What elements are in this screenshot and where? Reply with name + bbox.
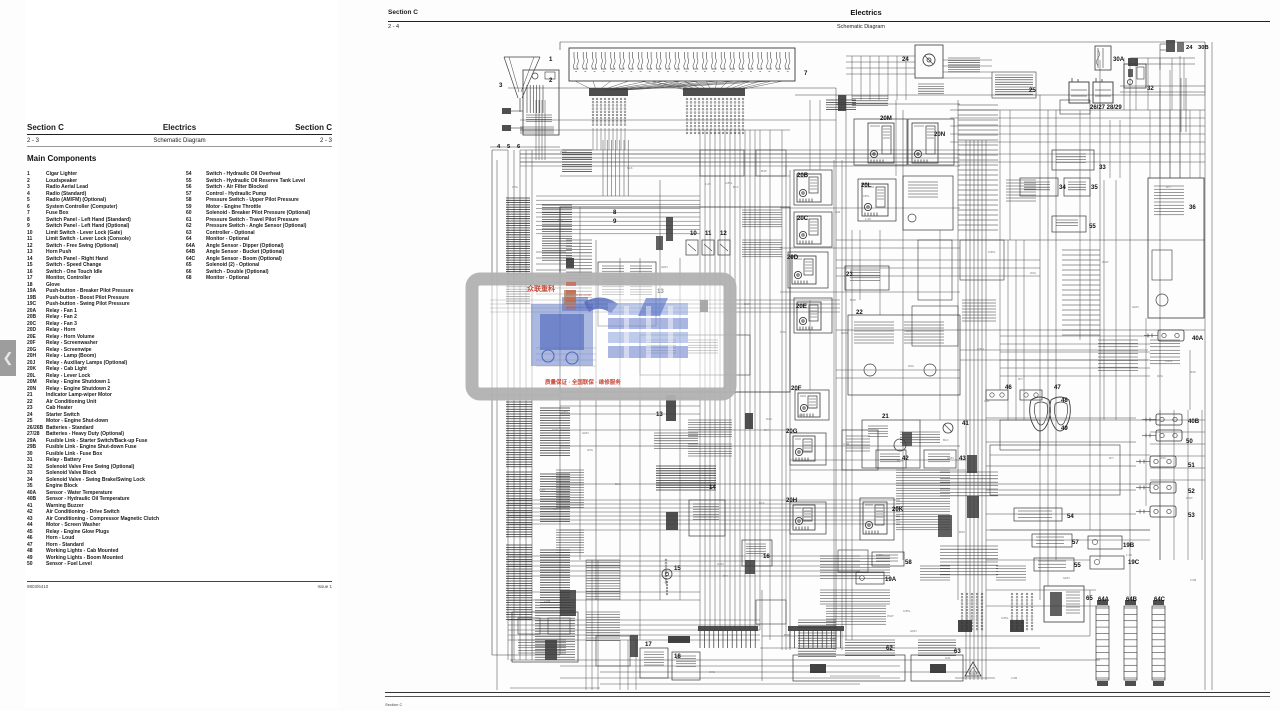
ignition comb [826, 100, 856, 110]
svg-text:WHT: WHT [1102, 260, 1109, 264]
wire outer left frame [492, 150, 560, 690]
svg-text:0.85L: 0.85L [862, 194, 870, 198]
svg-text:20M: 20M [880, 115, 892, 122]
speed change switch 15 [662, 569, 672, 595]
svg-text:30A: 30A [1113, 56, 1125, 63]
svg-text:25: 25 [1029, 87, 1036, 94]
comb bottom right of centre [826, 606, 886, 624]
svg-text:19C: 19C [1128, 559, 1140, 566]
watermark grey frame [472, 279, 730, 394]
bottom comb grid C [918, 640, 956, 656]
svg-text:G/R: G/R [945, 656, 951, 660]
svg-text:W/G: W/G [512, 185, 519, 189]
junction blob centre [745, 413, 753, 429]
comb top mid extra [852, 84, 944, 106]
switch panel 14 block [656, 466, 716, 490]
junction blob bl4 [745, 560, 755, 574]
svg-text:47: 47 [1054, 384, 1061, 391]
watermark red column marks [566, 282, 576, 310]
svg-text:18: 18 [674, 653, 681, 660]
wiper motor 21 box [862, 420, 920, 468]
svg-text:BLK: BLK [759, 501, 765, 505]
switch 53 capsule [1136, 506, 1176, 517]
wire vertical singles [560, 42, 1212, 690]
svg-text:R/Y: R/Y [1166, 185, 1171, 189]
svg-text:40A: 40A [1192, 335, 1204, 342]
left connector ladder mid [506, 402, 570, 467]
junction blob bead A [958, 620, 972, 632]
push-button 19A [856, 572, 884, 584]
controller 18 connector [672, 652, 700, 680]
push-button 19B [1088, 536, 1122, 549]
relay 20F [795, 390, 829, 420]
svg-text:B/W: B/W [1190, 370, 1196, 374]
wire mesh top-right grid [950, 110, 1205, 178]
labels 10 11 12 [690, 230, 727, 237]
junction blob [566, 258, 574, 268]
travel sensor warning triangle [955, 662, 995, 678]
right page header [388, 6, 1270, 32]
harness connector B [683, 88, 745, 134]
svg-text:BLK: BLK [733, 185, 739, 189]
relay 20M frame [854, 119, 907, 165]
svg-text:1: 1 [549, 56, 553, 63]
wire left-bottom verticals [586, 560, 636, 690]
svg-text:G/R: G/R [798, 413, 804, 417]
svg-text:R/Y: R/Y [558, 219, 563, 223]
svg-text:35: 35 [1091, 184, 1098, 191]
wire right-low mesh [1150, 410, 1205, 560]
working light 49 [1050, 397, 1071, 431]
svg-text:65: 65 [1086, 595, 1093, 602]
svg-text:B/W: B/W [959, 530, 965, 534]
watermark red text top [527, 284, 592, 297]
junction blob rb1 [938, 515, 952, 537]
right page footer [385, 692, 1270, 697]
solenoid 65 block [1044, 586, 1084, 622]
svg-text:GRN: GRN [910, 629, 917, 633]
loudspeaker 2 lower [502, 125, 523, 131]
relay 20K [860, 498, 894, 540]
svg-text:33: 33 [1099, 164, 1106, 171]
relay 20J box [842, 430, 878, 470]
svg-text:GRN: GRN [1132, 305, 1139, 309]
svg-text:WHT: WHT [1186, 496, 1193, 500]
starter switch 24 [915, 45, 980, 78]
wire vertical singles 2 [580, 56, 1190, 650]
left connector ladder upper [506, 198, 572, 304]
wire bundle top-left drop [536, 100, 545, 160]
svg-text:众联重科: 众联重科 [527, 284, 555, 293]
tick rows right trunk [940, 472, 998, 575]
wire h-bundle into left panel [536, 196, 700, 234]
horn push 13 connector [654, 395, 698, 449]
right harness comb mid [1062, 250, 1100, 335]
svg-text:12: 12 [720, 230, 727, 237]
battery relay 32 [1124, 64, 1146, 88]
wire battery feeds [1120, 58, 1205, 110]
wire h-bundle mid [490, 300, 840, 312]
sensor 40B capsule [1142, 414, 1182, 425]
svg-text:G/R: G/R [553, 507, 559, 511]
controller pin comb left [566, 240, 592, 307]
svg-text:BLK: BLK [615, 482, 621, 486]
svg-text:40B: 40B [1188, 418, 1200, 425]
junction blob bead B [1010, 620, 1024, 632]
wire mesh to motor 25 [943, 60, 992, 78]
capsule feed wires [986, 418, 1136, 514]
warning buzzer 41 [943, 423, 953, 433]
svg-text:GRN: GRN [661, 265, 668, 269]
svg-text:WHT: WHT [887, 614, 894, 618]
frame box right mid [990, 445, 1120, 495]
wire mesh right block [1000, 240, 1150, 420]
svg-text:W/G: W/G [908, 364, 915, 368]
svg-text:GRN: GRN [717, 562, 724, 566]
watermark red text bottom [545, 378, 621, 386]
svg-text:0.85L: 0.85L [876, 553, 884, 557]
comb upper mid [688, 420, 732, 456]
svg-text:GRN: GRN [947, 456, 954, 460]
bottom frame line [762, 590, 1090, 681]
svg-text:B/W: B/W [850, 298, 856, 302]
relay 20G [790, 433, 826, 465]
junction blob right trunk A [967, 455, 977, 473]
wire long singles [490, 240, 1205, 672]
connector comb bottom centre B [788, 626, 844, 648]
junction blob bl3 [630, 635, 638, 657]
wire h-bundle under fusebox [520, 150, 960, 166]
svg-text:R/Y: R/Y [1109, 456, 1114, 460]
hydraulic switch 55 [1052, 216, 1086, 232]
wire h-bundle lower-mid [508, 500, 900, 524]
comb bottom right extras [920, 566, 1026, 580]
connector bar 17 [668, 636, 690, 643]
harness connector A [589, 88, 628, 126]
wire bottom horizontals [510, 666, 900, 688]
svg-text:20B: 20B [797, 172, 809, 179]
svg-text:3: 3 [499, 82, 503, 89]
svg-text:13: 13 [656, 411, 663, 418]
wire top trunk [560, 42, 1205, 95]
svg-text:W/G: W/G [1160, 456, 1167, 460]
svg-text:30B: 30B [1198, 45, 1209, 51]
svg-text:G/R: G/R [835, 210, 841, 214]
wire long singles 2 [508, 120, 1150, 648]
wire mesh top-right ignition [846, 56, 915, 100]
sidebar nav button [0, 340, 16, 376]
panel switches row [640, 335, 750, 375]
monitor box 63 [911, 655, 963, 681]
svg-text:2.0B: 2.0B [1190, 578, 1196, 582]
svg-text:19B: 19B [1123, 542, 1135, 549]
svg-text:23: 23 [846, 271, 853, 278]
svg-text:WHT: WHT [560, 150, 567, 154]
relay 20D [788, 252, 828, 288]
engine shutdown motor 25 [992, 72, 1036, 98]
centre ladder box [666, 500, 725, 536]
left page [25, 0, 338, 708]
svg-text:19A: 19A [885, 576, 897, 583]
svg-text:2.0B: 2.0B [843, 442, 849, 446]
left bottom box 17 [512, 612, 578, 662]
switch panel 8/9 frame [560, 207, 790, 392]
svg-text:0.85L: 0.85L [561, 410, 569, 414]
pressure switch 54 [1014, 508, 1062, 521]
svg-text:20L: 20L [861, 182, 872, 189]
svg-text:54: 54 [1067, 513, 1074, 520]
wire relay column crossings [780, 160, 1150, 650]
fuel sensor 50 capsule [1142, 430, 1182, 441]
switch 51 capsule [1136, 456, 1176, 467]
bottom-mid comb rows [820, 556, 890, 604]
monitor box 62 [793, 655, 905, 681]
pressure switch 55 [1034, 558, 1074, 571]
svg-text:55: 55 [1074, 562, 1081, 569]
svg-text:BLK: BLK [943, 438, 949, 442]
comb bottom-left dense [535, 600, 575, 660]
svg-text:R/Y: R/Y [723, 574, 728, 578]
connector comb under radio [520, 127, 554, 133]
svg-text:41: 41 [962, 420, 969, 427]
angle sensor 64B [1124, 600, 1137, 686]
wire v-bundle left harness [508, 150, 532, 660]
svg-text:W/G: W/G [1030, 271, 1037, 275]
fusible links 24/30B top right [1160, 40, 1184, 52]
controller block 6 [598, 262, 656, 326]
svg-text:7: 7 [804, 70, 808, 77]
fusible link 30A [1095, 46, 1111, 70]
loudspeaker 2 upper [502, 108, 523, 114]
svg-text:20G: 20G [786, 428, 798, 435]
svg-text:20K: 20K [892, 506, 904, 513]
svg-text:15: 15 [674, 565, 681, 572]
junction blob top [838, 95, 846, 111]
relay 20M [868, 123, 894, 163]
wiper unit 21 box [903, 176, 953, 230]
svg-text:0.85L: 0.85L [903, 609, 911, 613]
svg-text:22: 22 [856, 309, 863, 316]
svg-text:17: 17 [645, 641, 652, 648]
junction blob mid [700, 300, 708, 312]
comb upper-left harness [562, 150, 592, 172]
wire h-bundle bottom [508, 620, 760, 640]
air con unit 22 box [848, 315, 960, 395]
svg-text:20C: 20C [797, 215, 809, 222]
small boxes scatter [596, 100, 1090, 666]
wire v-bundle centre trunk [700, 130, 760, 630]
battery 28/29 [1093, 78, 1113, 103]
svg-text:36: 36 [1189, 204, 1196, 211]
svg-text:W/G: W/G [709, 670, 716, 674]
solenoid valve 34 [1020, 178, 1058, 196]
svg-text:14: 14 [709, 484, 716, 491]
wire mesh upper-centre verticals [603, 140, 628, 196]
angle sensor 64A [1096, 600, 1109, 686]
relay 20N [908, 119, 954, 165]
svg-text:GRN: GRN [552, 428, 559, 432]
relay 20L [858, 179, 896, 221]
compressor clutch 43 [924, 450, 956, 468]
svg-text:64A: 64A [1098, 597, 1110, 603]
svg-text:W/G: W/G [766, 417, 773, 421]
svg-text:43: 43 [959, 455, 966, 462]
horn 46 [986, 390, 1008, 400]
solenoid valve 33 [1052, 150, 1094, 170]
svg-text:42: 42 [902, 455, 909, 462]
svg-text:11: 11 [705, 230, 712, 237]
push-button 19C [1090, 556, 1124, 569]
svg-text:64B: 64B [1126, 597, 1138, 603]
junction blob bl1 [560, 590, 576, 616]
pressure switch 57 [1032, 534, 1072, 547]
wire horizontals upper [490, 88, 1205, 147]
svg-text:16: 16 [763, 553, 770, 560]
switch 58 [872, 552, 904, 566]
one touch idle 16 [742, 540, 772, 566]
junction blob right [1128, 58, 1138, 66]
switch 52 capsule [1136, 482, 1176, 493]
svg-text:B/W: B/W [897, 459, 903, 463]
bottom-left comb stack [586, 560, 620, 641]
left connector ladder bottom [506, 545, 570, 619]
svg-text:1.25: 1.25 [865, 217, 871, 221]
svg-text:R/Y: R/Y [764, 428, 769, 432]
comb right-bottom A [896, 432, 950, 530]
svg-text:34: 34 [1059, 184, 1066, 191]
svg-text:53: 53 [1188, 512, 1195, 519]
svg-text:8: 8 [613, 209, 617, 216]
watermark tan mark [564, 290, 576, 305]
engine block 36 [1148, 178, 1204, 318]
svg-text:21: 21 [882, 413, 889, 420]
svg-text:0.85L: 0.85L [725, 181, 733, 185]
svg-text:B/W: B/W [784, 633, 790, 637]
bead column cluster bottom [961, 593, 1033, 630]
junction blob panel B [656, 236, 663, 250]
svg-text:26/27 28/29: 26/27 28/29 [1090, 105, 1122, 111]
svg-text:64C: 64C [1154, 597, 1166, 603]
svg-text:0.85L: 0.85L [977, 347, 985, 351]
fuse box fan-out wires [575, 81, 783, 90]
svg-text:0.85L: 0.85L [1165, 359, 1173, 363]
left connector ladder lower [506, 472, 570, 537]
svg-text:52: 52 [1188, 488, 1195, 495]
junction blob panel A [666, 217, 673, 241]
free swing switch 12 [718, 240, 730, 255]
comb right of panel [742, 210, 782, 257]
wire h-bundle lower [508, 556, 860, 576]
comb far right lower [1098, 340, 1180, 371]
aircon drive switch 42 [876, 450, 906, 468]
relay 20E [794, 298, 832, 333]
relay 20C [794, 212, 832, 247]
svg-text:1.25: 1.25 [1126, 553, 1132, 557]
wire under-fusebox long [520, 154, 1205, 162]
monitor 17 connector [640, 648, 668, 678]
limit switch 11 [702, 240, 714, 255]
svg-text:0.85L: 0.85L [988, 250, 996, 254]
svg-text:BLK: BLK [627, 166, 633, 170]
svg-text:20N: 20N [934, 131, 945, 138]
sensor 40A capsule [1144, 330, 1184, 341]
radio 4/5 [523, 70, 559, 135]
svg-text:G/R: G/R [984, 399, 990, 403]
battery 26/27 [1069, 78, 1089, 103]
svg-text:58: 58 [905, 559, 912, 566]
svg-text:49: 49 [1061, 425, 1068, 432]
svg-text:0.85L: 0.85L [1001, 616, 1009, 620]
labels 4 5 6 [497, 144, 521, 150]
svg-text:GRN: GRN [1063, 576, 1070, 580]
svg-text:B/W: B/W [744, 302, 750, 306]
fuse box 7 [569, 48, 795, 81]
svg-text:1.25: 1.25 [539, 488, 545, 492]
svg-text:10: 10 [690, 230, 697, 237]
bottom comb grid A [798, 620, 836, 656]
horn 47 [1020, 390, 1042, 400]
junction blob right trunk B [967, 496, 979, 518]
svg-text:B/W: B/W [761, 169, 767, 173]
cab heater 23 [845, 266, 889, 290]
watermark blue machine graphic [531, 297, 688, 366]
junction blob bl2 [545, 640, 557, 660]
wire mesh mid-left rows [536, 252, 596, 366]
svg-text:W/G: W/G [780, 330, 787, 334]
svg-text:2: 2 [549, 77, 553, 84]
comb mid right extra [962, 180, 1036, 321]
comb left column extra [556, 470, 584, 553]
svg-text:9: 9 [613, 218, 617, 225]
relay 20B [794, 170, 832, 205]
svg-text:20E: 20E [796, 303, 807, 310]
tiny harness wire labels [512, 150, 1196, 680]
switch 15 bead chain [665, 559, 667, 583]
svg-text:W/G: W/G [587, 448, 594, 452]
solenoid valve 35 [1064, 178, 1090, 196]
wire v-bundle right trunk [966, 140, 986, 680]
svg-text:GRN: GRN [582, 431, 589, 435]
bottom comb grid B [845, 640, 895, 656]
svg-text:质量保证 · 全国联保 · 维修服务: 质量保证 · 全国联保 · 维修服务 [545, 378, 621, 386]
angle sensor 64C [1152, 600, 1165, 686]
battery feed verticals [1130, 44, 1195, 132]
wire fanout connector A down [593, 128, 625, 150]
limit switch 10 [686, 240, 698, 255]
svg-text:20F: 20F [791, 385, 802, 392]
svg-text:R/Y: R/Y [1018, 377, 1023, 381]
svg-text:24: 24 [1186, 45, 1193, 51]
svg-text:2.0B: 2.0B [1011, 676, 1017, 680]
working light 48 [1030, 397, 1051, 431]
svg-text:62: 62 [886, 645, 893, 652]
svg-text:46: 46 [1005, 384, 1012, 391]
svg-text:1.25: 1.25 [705, 182, 711, 186]
aerial lead 3 [504, 57, 540, 112]
relay 20H [790, 502, 826, 534]
svg-text:63: 63 [954, 648, 961, 655]
right harness comb upper [958, 105, 998, 230]
svg-text:20D: 20D [787, 254, 799, 261]
svg-text:GRN: GRN [906, 329, 913, 333]
connector comb bottom centre A [698, 626, 758, 648]
svg-text:W/G: W/G [1157, 374, 1164, 378]
wire mesh centre lower [560, 398, 700, 414]
svg-text:20H: 20H [786, 497, 797, 504]
junction blob rb2 [902, 432, 912, 446]
